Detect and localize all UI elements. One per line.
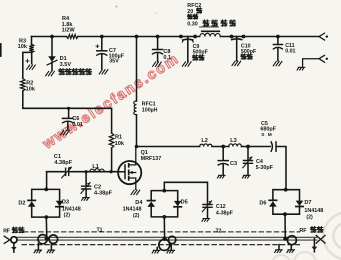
svg-text:10k: 10k (18, 44, 28, 50)
ground (T1 left) (37, 244, 39, 250)
diode D2 (28, 199, 35, 201)
capacitor C11 0.01 (277, 37, 279, 45)
ground (power connector) (297, 67, 305, 70)
svg-text:L3: L3 (230, 138, 237, 144)
ground (C7) (99, 70, 108, 74)
resistor R3 (bias pot) (31, 37, 33, 45)
svg-text:R1: R1 (115, 135, 122, 141)
svg-text:D3: D3 (62, 200, 69, 206)
capacitor C9 feedthrough (187, 37, 189, 62)
svg-text:RF: RF (299, 228, 307, 234)
diode D6 (269, 199, 276, 201)
wire box top to C12 (164, 182, 207, 203)
T2 input loop (162, 237, 166, 241)
ground (C10) (232, 61, 241, 65)
wire +28V top rail (32, 36, 320, 38)
svg-text:10k: 10k (26, 87, 36, 93)
svg-text:T2: T2 (216, 228, 222, 234)
svg-text:D2: D2 (18, 200, 25, 206)
wire gate corner down to diode box (46, 172, 48, 190)
connector +28V input (319, 33, 325, 40)
svg-text:100µH: 100µH (142, 108, 158, 114)
ground (output left) (278, 245, 280, 249)
scan speck (115, 5, 117, 7)
svg-text:(2): (2) (306, 214, 313, 220)
ferrite bead output (287, 236, 296, 245)
svg-text:C1: C1 (54, 154, 61, 160)
wire gate line (47, 171, 119, 173)
ground (T2 left) (156, 248, 158, 250)
wire box bottom to output tap (284, 214, 286, 238)
svg-text:RF: RF (3, 229, 10, 235)
svg-text:C3: C3 (230, 161, 237, 167)
svg-text:1N4148: 1N4148 (62, 206, 81, 212)
connector RF input (4, 236, 10, 243)
inductor L3 (229, 144, 242, 147)
svg-text:1N4148: 1N4148 (123, 207, 142, 213)
svg-text:C12: C12 (216, 204, 226, 210)
resistor R4 (67, 35, 79, 39)
capacitor C7 100uF (101, 37, 103, 51)
svg-text:3.5V: 3.5V (60, 62, 72, 68)
resistor R2 (21, 79, 26, 92)
svg-text:35V: 35V (109, 58, 119, 64)
svg-text:L1: L1 (92, 164, 99, 170)
svg-text:MRF137: MRF137 (141, 156, 162, 162)
output junction (283, 237, 287, 241)
svg-text:RFC1: RFC1 (142, 101, 156, 107)
node diode box D2 D3 (32, 189, 60, 217)
svg-text:T1: T1 (97, 227, 103, 233)
capacitor C6 0.01 (68, 108, 70, 117)
svg-text:0.01: 0.01 (72, 122, 83, 128)
ground (C2) (82, 198, 90, 201)
resistor R1 (109, 133, 114, 148)
inductor L1 (90, 169, 105, 172)
ground (input connector) (13, 243, 15, 247)
svg-text:500pF: 500pF (241, 49, 257, 55)
ferrite beads T1 (38, 235, 47, 244)
zener diode D1 (51, 37, 53, 57)
ground (T2 right) (170, 244, 172, 250)
diode D3 (56, 201, 64, 206)
svg-text:4.38pF: 4.38pF (54, 160, 72, 166)
svg-text:4-38pF: 4-38pF (94, 191, 113, 197)
wire box to T1 tap (45, 217, 48, 238)
variable capacitor C1 (66, 168, 69, 175)
wire pot to R2 (23, 52, 32, 78)
svg-text:D1: D1 (60, 56, 67, 62)
svg-text:0.1: 0.1 (163, 55, 171, 61)
node diode box D4 D5 (151, 191, 178, 217)
svg-text:4-38pF: 4-38pF (216, 211, 234, 217)
ground (output connector) (313, 239, 315, 247)
svg-text:R2: R2 (26, 80, 33, 86)
svg-text:10k: 10k (115, 141, 125, 147)
node diode box D6 D7 (273, 190, 300, 215)
svg-text:1/2W: 1/2W (62, 28, 76, 34)
diode D4 (148, 200, 155, 202)
ground (T1 right) (50, 243, 52, 249)
diode D7 (296, 201, 304, 206)
ground (output right) (290, 245, 292, 249)
ground (C9) (182, 62, 191, 66)
svg-text:S M: S M (261, 132, 273, 138)
svg-text:500pF: 500pF (193, 50, 209, 56)
inductor RFC2 (200, 33, 221, 36)
scan edge mark (0, 44, 2, 56)
transistor Q1 MRF137 (118, 161, 141, 184)
wire bias line (23, 108, 112, 133)
connector power ground (303, 55, 325, 66)
ground (D1) (46, 71, 55, 75)
ground (C3) (217, 175, 225, 178)
svg-text:L2: L2 (201, 138, 208, 144)
svg-text:0.30: 0.30 (187, 22, 198, 28)
svg-text:D4: D4 (135, 200, 143, 206)
ferrite bead (input) (11, 237, 17, 243)
wire shield dashed lines (22, 232, 300, 245)
svg-text:(2): (2) (133, 213, 140, 219)
inductor RFC1 (136, 37, 138, 102)
ground (C6) (61, 130, 70, 134)
capacitor C10 feedthrough (236, 37, 238, 61)
wire transmission line (twin lead) (17, 237, 317, 240)
wire box bottom to T2 tap (163, 217, 165, 239)
ground (C12) (202, 219, 210, 222)
svg-text:20: 20 (187, 9, 193, 15)
ground (R3) (27, 65, 36, 69)
variable capacitor C2 (85, 172, 87, 186)
node wiper + mark (26, 59, 29, 62)
svg-text:680pF: 680pF (260, 127, 276, 133)
svg-text:1N4148: 1N4148 (304, 208, 323, 214)
variable capacitor C12 (203, 205, 212, 208)
wire pot lower arm to ground (31, 52, 33, 63)
ground (C4) (242, 175, 250, 178)
wire R2 to bias line (22, 91, 24, 108)
capacitor C3 (222, 147, 224, 160)
svg-text:C2: C2 (94, 184, 101, 190)
connector RF output (316, 235, 325, 243)
inductor L2 (200, 144, 212, 147)
wire drain line (137, 147, 287, 190)
svg-text:5-30pF: 5-30pF (256, 165, 274, 171)
ferrite bead T2 (168, 236, 175, 243)
variable capacitor C4 (247, 147, 249, 160)
svg-text:D6: D6 (259, 201, 266, 207)
capacitor C8 0.1 (157, 37, 159, 50)
svg-text:0.01: 0.01 (285, 48, 295, 54)
ground (C8) (153, 62, 162, 66)
svg-text:(2): (2) (64, 213, 71, 219)
diode D5 (174, 201, 182, 206)
svg-text:D5: D5 (181, 200, 188, 206)
svg-text:D7: D7 (304, 200, 311, 206)
node: rail junction dots (50, 35, 54, 39)
ground (C11) (273, 61, 282, 65)
ground (Q1 source) (131, 190, 140, 194)
capacitor C5 680pF (271, 142, 272, 151)
